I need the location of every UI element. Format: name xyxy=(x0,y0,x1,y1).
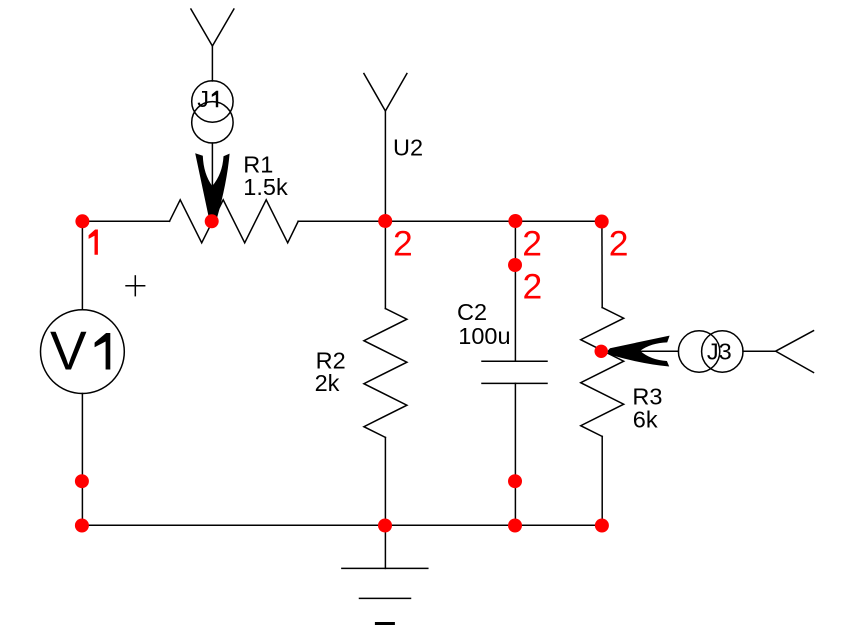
svg-text:2k: 2k xyxy=(315,370,340,396)
wire U2 to node 2 xyxy=(384,111,386,221)
probe J1 arrow xyxy=(195,153,229,222)
wire node 2 down to R2 xyxy=(384,221,386,308)
svg-text:C2: C2 xyxy=(457,299,487,325)
resistor R2 xyxy=(364,309,407,438)
capacitor C2 xyxy=(482,360,547,362)
plus sign of V1 xyxy=(125,275,145,296)
node dot R3 tap xyxy=(595,345,608,358)
probe J3 arrow xyxy=(607,336,669,367)
wire top rail right segment xyxy=(298,220,602,222)
wire J3 arrow to circles xyxy=(640,350,678,352)
node dot C2 top xyxy=(508,214,522,228)
svg-text:R3: R3 xyxy=(632,383,662,409)
voltage source V1 xyxy=(41,310,125,394)
svg-text:2: 2 xyxy=(523,267,543,307)
probe J1 antenna Y xyxy=(191,9,234,46)
probe J1 circle upper xyxy=(192,81,233,122)
svg-text:6k: 6k xyxy=(633,407,658,433)
wire node 1 down to V1 xyxy=(81,221,83,309)
wire R2 to bottom rail xyxy=(384,437,386,525)
wire bottom rail xyxy=(82,524,602,526)
svg-text:J3: J3 xyxy=(707,339,732,365)
svg-text:V: V xyxy=(50,320,87,382)
wire top right corner down to R3 xyxy=(601,221,603,307)
probe J1 circle lower xyxy=(192,102,233,143)
probe J3 circle right xyxy=(702,331,743,372)
node dot bottom C2 xyxy=(508,519,522,533)
node dot bottom left xyxy=(75,519,89,533)
node dot top right corner xyxy=(595,215,609,229)
ground xyxy=(384,525,386,568)
wire V1 to bottom rail xyxy=(81,394,83,526)
wire J1 Y to circles xyxy=(211,46,213,81)
svg-text:100u: 100u xyxy=(458,323,510,349)
node dot C2 mid xyxy=(508,258,522,272)
svg-text:U2: U2 xyxy=(393,134,423,160)
node dot bottom right xyxy=(595,519,609,533)
node dot 2 center xyxy=(378,214,392,228)
node dot V1 branch xyxy=(75,474,89,488)
probe J3 antenna Y xyxy=(776,331,814,373)
wire R3 to bottom rail xyxy=(601,436,603,525)
node dot R1 tap xyxy=(205,214,219,228)
svg-text:2: 2 xyxy=(393,224,413,264)
node label 1 xyxy=(89,230,98,255)
wire J1 circle to arrow xyxy=(211,143,213,186)
wire C2 branch top xyxy=(514,221,516,361)
wire J3 circles to Y xyxy=(743,350,776,352)
probe U2 antenna Y xyxy=(364,74,407,112)
probe J3 circle left xyxy=(678,331,719,372)
node dot bottom ground xyxy=(378,519,392,533)
node dot C2 branch low xyxy=(508,474,522,488)
wire top rail left segment xyxy=(82,220,169,222)
svg-text:2: 2 xyxy=(522,223,542,263)
resistor R1 xyxy=(170,200,299,243)
node dot 1 xyxy=(75,214,89,228)
wire C2 to bottom rail xyxy=(514,383,516,525)
resistor R3 xyxy=(581,308,624,437)
svg-text:J: J xyxy=(197,86,209,112)
svg-text:1.5k: 1.5k xyxy=(243,174,288,200)
svg-text:2: 2 xyxy=(609,224,629,264)
